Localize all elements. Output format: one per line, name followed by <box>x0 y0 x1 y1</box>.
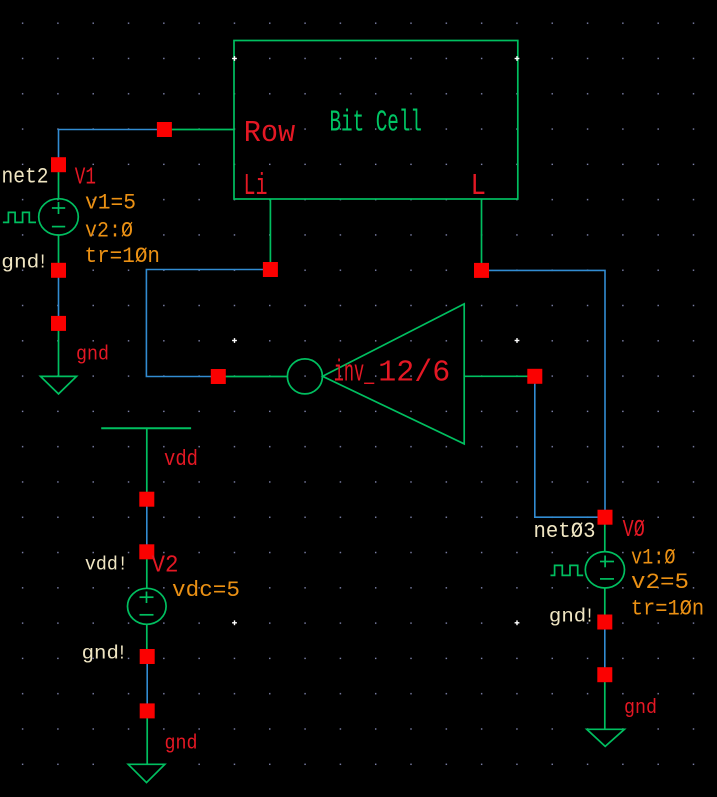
svg-text:net2: net2 <box>2 164 49 189</box>
svg-text:gnd: gnd <box>82 643 119 665</box>
svg-text:gnd: gnd <box>1 252 39 274</box>
svg-text:vdd: vdd <box>85 554 118 576</box>
svg-text:vdd: vdd <box>164 447 198 472</box>
svg-text:v1:Ø: v1:Ø <box>631 545 676 571</box>
svg-text:v1=5: v1=5 <box>85 190 136 216</box>
svg-text:netØ3: netØ3 <box>534 519 596 544</box>
svg-text:Li: Li <box>244 169 268 204</box>
svg-text:Bit Cell: Bit Cell <box>330 105 423 140</box>
svg-text:inv_: inv_ <box>334 356 375 391</box>
svg-text:!: ! <box>117 643 127 665</box>
svg-text:Row: Row <box>244 116 296 151</box>
svg-text:L: L <box>471 169 487 204</box>
svg-text:!: ! <box>584 606 594 628</box>
svg-text:vdc=5: vdc=5 <box>172 577 240 603</box>
svg-text:tr=1Øn: tr=1Øn <box>85 243 161 269</box>
svg-text:v2=5: v2=5 <box>631 569 689 595</box>
svg-text:12/6: 12/6 <box>378 356 450 391</box>
svg-text:gnd: gnd <box>549 606 586 628</box>
svg-text:v2:Ø: v2:Ø <box>85 218 133 244</box>
svg-text:tr=1Øn: tr=1Øn <box>631 595 705 621</box>
svg-text:gnd: gnd <box>76 344 109 367</box>
svg-text:!: ! <box>38 252 48 274</box>
svg-text:V1: V1 <box>75 164 96 191</box>
svg-text:!: ! <box>118 554 128 576</box>
svg-text:V2: V2 <box>152 552 179 579</box>
svg-text:gnd: gnd <box>165 732 198 755</box>
svg-text:gnd: gnd <box>624 697 657 720</box>
svg-text:VØ: VØ <box>623 517 645 544</box>
